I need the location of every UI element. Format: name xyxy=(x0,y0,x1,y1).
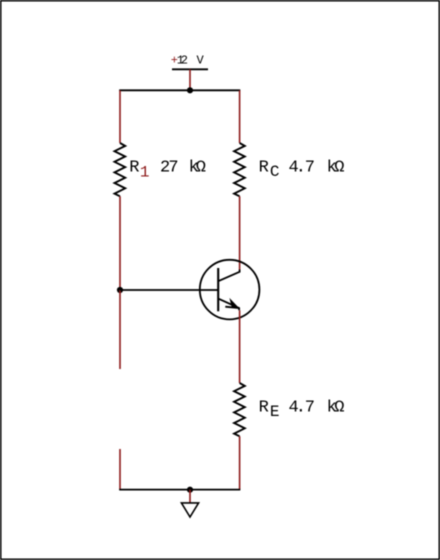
svg-text:C: C xyxy=(270,163,280,181)
power rail bar +12V xyxy=(172,68,208,70)
svg-text:E: E xyxy=(270,403,280,421)
wire left branch below base node (dangling) xyxy=(119,290,121,369)
junction dot base node xyxy=(117,287,123,293)
wire right branch bottom (RE to ground rail) xyxy=(239,436,241,489)
wire left branch mid (R1 to base node) xyxy=(119,196,121,290)
wire ground stub xyxy=(189,490,191,503)
ground symbol xyxy=(181,503,198,517)
wire left branch top xyxy=(119,90,121,143)
svg-text:1: 1 xyxy=(140,163,150,181)
svg-text:R: R xyxy=(259,398,269,417)
junction dot top rail xyxy=(187,87,193,93)
transistor Q1 circle xyxy=(200,260,260,320)
wire emitter (transistor to RE) xyxy=(239,310,241,383)
wire top rail horizontal xyxy=(119,89,240,91)
transistor Q1 emitter arrow xyxy=(229,298,239,308)
wire base lead horizontal xyxy=(120,289,218,291)
svg-text:R: R xyxy=(259,158,269,177)
svg-text:R: R xyxy=(129,159,139,178)
transistor Q1 emitter lead xyxy=(218,299,239,311)
junction dot ground node xyxy=(187,487,193,493)
wire collector (RC to transistor) xyxy=(239,196,241,269)
transistor Q1 collector lead xyxy=(218,270,239,282)
wire bottom rail horizontal xyxy=(119,489,240,491)
resistor RC xyxy=(234,143,245,196)
svg-text:12: 12 xyxy=(177,53,188,67)
transistor Q1 base bar xyxy=(217,268,219,311)
resistor R1 xyxy=(115,143,126,196)
wire power stub from bar to top rail xyxy=(189,69,191,90)
resistor RE xyxy=(234,383,245,436)
wire right branch top xyxy=(239,90,241,143)
svg-text:V: V xyxy=(197,53,205,67)
wire left branch bottom xyxy=(119,449,121,490)
